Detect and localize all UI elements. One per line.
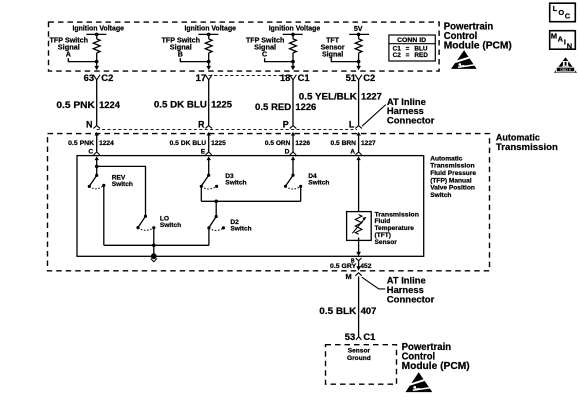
svg-text:0.5 RED: 0.5 RED [255,101,291,112]
icon LOC box [550,3,576,22]
terminal D TFP switch case entry [290,152,296,155]
wire 0.5 DK BLU 1225 [208,80,210,125]
svg-text:Switch: Switch [308,179,329,186]
svg-text:63: 63 [84,72,94,83]
wire 0.5 BLK 407 [358,276,360,336]
svg-text:N: N [86,119,93,129]
svg-text:Connector: Connector [387,115,435,126]
label TFT sensor [375,211,420,246]
svg-text:C2: C2 [101,72,113,83]
wire 0.5 YEL/BLK 1227 [358,80,360,125]
svg-text:0.5 ORN: 0.5 ORN [265,140,291,147]
label Powertrain Control Module (PCM) bottom [402,342,470,372]
svg-text:Ignition Voltage: Ignition Voltage [269,24,321,32]
svg-text:0.5 DK BLU: 0.5 DK BLU [170,140,207,147]
pin 53 connector C1 terminal [356,337,361,340]
PCM sensor ground dashed box [326,345,397,385]
svg-text:1225: 1225 [211,99,232,110]
terminal A TFP switch case entry [355,152,361,155]
node junction C [95,165,99,169]
node TFP Switch Signal A [50,37,89,59]
terminal P inline connector [290,126,297,129]
svg-text:53: 53 [345,331,355,342]
svg-text:407: 407 [361,305,377,316]
callout AT Inline Harness Connector (top) [362,96,435,126]
svg-text:Module (PCM): Module (PCM) [402,361,470,372]
svg-text:O: O [558,8,564,17]
svg-text:R: R [198,119,205,129]
wire D3/D4 bus [201,200,300,202]
svg-text:18: 18 [280,72,290,83]
terminal R inline connector [205,126,212,129]
label TFP manual valve position switch [430,155,476,199]
svg-text:Sensor: Sensor [375,239,398,246]
wire bus to D2 switch [215,201,217,216]
svg-text:P: P [283,119,289,129]
svg-text:A: A [350,148,355,155]
svg-text:Automatic: Automatic [430,155,463,162]
svg-text:17: 17 [196,72,206,83]
svg-text:M: M [551,31,557,40]
svg-text:0.5 GRY: 0.5 GRY [330,263,357,270]
TFP manual valve position switch solid box [77,156,424,257]
wire REV contact down [103,185,105,245]
wire C into switch assembly [96,160,98,176]
wire signal tap C [265,58,293,62]
wire into transmission terminal P [292,135,294,152]
CONN ID legend box [389,35,435,61]
svg-text:Fluid Pressure: Fluid Pressure [430,170,476,177]
wire D3 contact down [200,186,202,201]
svg-text:1226: 1226 [295,101,316,112]
wire E into switch assembly [208,160,210,176]
wire TFT signal tap [331,57,358,61]
wire with arrow out of PCM column TFT [358,53,360,67]
callout AT Inline Harness Connector (bottom) [362,275,435,305]
terminal C TFP switch case entry [94,152,100,155]
node TFP Switch Signal B [162,37,201,59]
svg-text:I: I [564,38,566,47]
svg-text:=: = [406,52,410,59]
svg-text:Valve Position: Valve Position [430,185,475,192]
wire LO contact to common [153,228,155,257]
node bus junction [152,244,156,248]
svg-text:Switch: Switch [230,226,251,233]
svg-text:Signal: Signal [322,50,343,58]
wire signal tap B [180,58,208,62]
svg-text:A: A [66,51,71,59]
label Automatic Transmission [496,132,558,153]
D4 switch [284,173,330,189]
svg-text:RED: RED [414,52,428,59]
pin 51 connector C2 terminal Y [355,75,362,80]
svg-text:Transmission: Transmission [496,141,558,152]
wire with arrow out of PCM column C [292,53,294,67]
svg-text:(TFP) Manual: (TFP) Manual [430,177,472,184]
svg-text:5V: 5V [354,25,363,33]
wire 0.5 RED 1226 [292,80,294,125]
pin 63 connector C2 terminal Y [93,75,100,80]
svg-text:N: N [567,41,572,50]
wire D4 contact down [300,186,302,201]
terminal L inline connector [355,126,362,129]
node Sensor Ground [347,348,371,362]
wire 0.5 GRY 452 [358,261,360,266]
svg-text:A: A [558,35,564,44]
AT Inline Harness Connector dashed line [97,129,357,131]
node case ground junction [151,253,157,259]
svg-text:B: B [178,51,183,59]
svg-text:1227: 1227 [361,140,376,147]
C1 connector grouping dashed line [209,74,293,76]
svg-text:0.5 BLK: 0.5 BLK [319,305,356,316]
svg-text:C2: C2 [363,72,375,83]
wire TFT sensor to case exit with arrow [358,238,360,253]
svg-text:1224: 1224 [99,140,114,147]
node TFP Switch Signal C [246,37,285,59]
svg-text:Transmission: Transmission [430,163,475,170]
D2 switch [207,215,251,233]
wire 0.5 PNK 1224 [96,80,98,125]
svg-text:CONN ID: CONN ID [397,37,426,44]
svg-text:D: D [285,148,290,155]
svg-text:Sensor: Sensor [348,348,371,355]
wire into transmission terminal N [96,135,98,152]
resistor (TFP Switch Signal C pull-up) [290,39,297,53]
svg-text:Switch: Switch [160,222,181,229]
node Ignition Voltage (column A) [72,24,124,36]
REV switch [88,174,133,189]
node Ignition Voltage (column B) [184,24,236,36]
svg-text:C: C [88,148,93,155]
svg-text:L: L [553,4,558,13]
wire D into switch assembly [292,160,294,176]
node D3/D4 bus junction [214,200,218,204]
terminal M inline connector [355,273,361,276]
Automatic Transmission dashed box [48,134,490,271]
svg-text:C: C [262,51,267,59]
svg-text:0.5 PNK: 0.5 PNK [56,99,95,110]
node Ignition Voltage (column C) [269,24,321,36]
wire with arrow out of PCM column B [208,53,210,67]
terminal B case exit [356,258,362,261]
wire D2 contact down [208,228,210,245]
svg-text:Ground: Ground [347,355,371,362]
svg-text:Ignition Voltage: Ignition Voltage [184,24,236,32]
svg-text:1225: 1225 [211,140,226,147]
svg-text:0.5 DK BLU: 0.5 DK BLU [154,99,207,110]
svg-text:0.5 YEL/BLK: 0.5 YEL/BLK [299,91,357,102]
svg-text:OBD II: OBD II [560,68,571,72]
svg-text:L: L [349,119,355,129]
svg-text:Switch: Switch [112,181,133,188]
TFT sensor (thermistor) [347,212,372,241]
svg-text:C2: C2 [393,52,402,59]
svg-text:1227: 1227 [361,91,382,102]
svg-text:Switch: Switch [225,179,246,186]
ESD sensitivity symbol (bottom) [406,372,433,392]
svg-text:C: C [565,12,571,21]
svg-text:1226: 1226 [295,140,310,147]
resistor (TFT sensor pull-up) [358,34,360,39]
wire A to TFT sensor [358,160,360,215]
icon MAIN box [550,31,576,51]
wire into transmission terminal R [208,135,210,152]
wire with arrow out of PCM column A [96,53,98,67]
resistor (TFP Switch Signal B pull-up) [205,39,212,53]
terminal E TFP switch case entry [206,152,212,155]
svg-text:0.5 BRN: 0.5 BRN [331,140,357,147]
node TFT Sensor Signal [321,37,345,59]
svg-text:0.5 PNK: 0.5 PNK [68,140,94,147]
svg-text:C1: C1 [298,72,310,83]
label Powertrain Control Module (PCM) top [444,22,512,52]
terminal N inline connector [93,126,100,129]
svg-text:Connector: Connector [387,293,435,304]
pin 17 terminal Y [205,75,212,80]
node 5V supply [349,25,369,36]
ground chevron below case [151,259,157,262]
wire signal tap A [68,58,96,62]
svg-text:E: E [201,148,206,155]
svg-text:51: 51 [346,72,356,83]
resistor (TFP Switch Signal A pull-up) [93,39,100,53]
svg-text:Ignition Voltage: Ignition Voltage [72,24,124,32]
LO switch [136,215,181,231]
PCM (Powertrain Control Module) dashed box [49,22,440,71]
svg-text:452: 452 [360,263,371,270]
svg-text:1224: 1224 [99,99,121,110]
pin 18 connector C1 terminal Y [290,75,297,80]
svg-text:C1: C1 [363,331,375,342]
svg-text:Switch: Switch [430,192,451,199]
D3 switch [200,173,247,189]
wire common bus [104,244,209,246]
wire junction C to LO switch [97,166,146,216]
icon OBD II triangle [554,57,577,72]
svg-text:M: M [346,272,352,281]
wire into transmission terminal L [358,135,360,152]
svg-text:Module (PCM): Module (PCM) [444,41,512,52]
ESD sensitivity symbol (top) [451,50,477,69]
